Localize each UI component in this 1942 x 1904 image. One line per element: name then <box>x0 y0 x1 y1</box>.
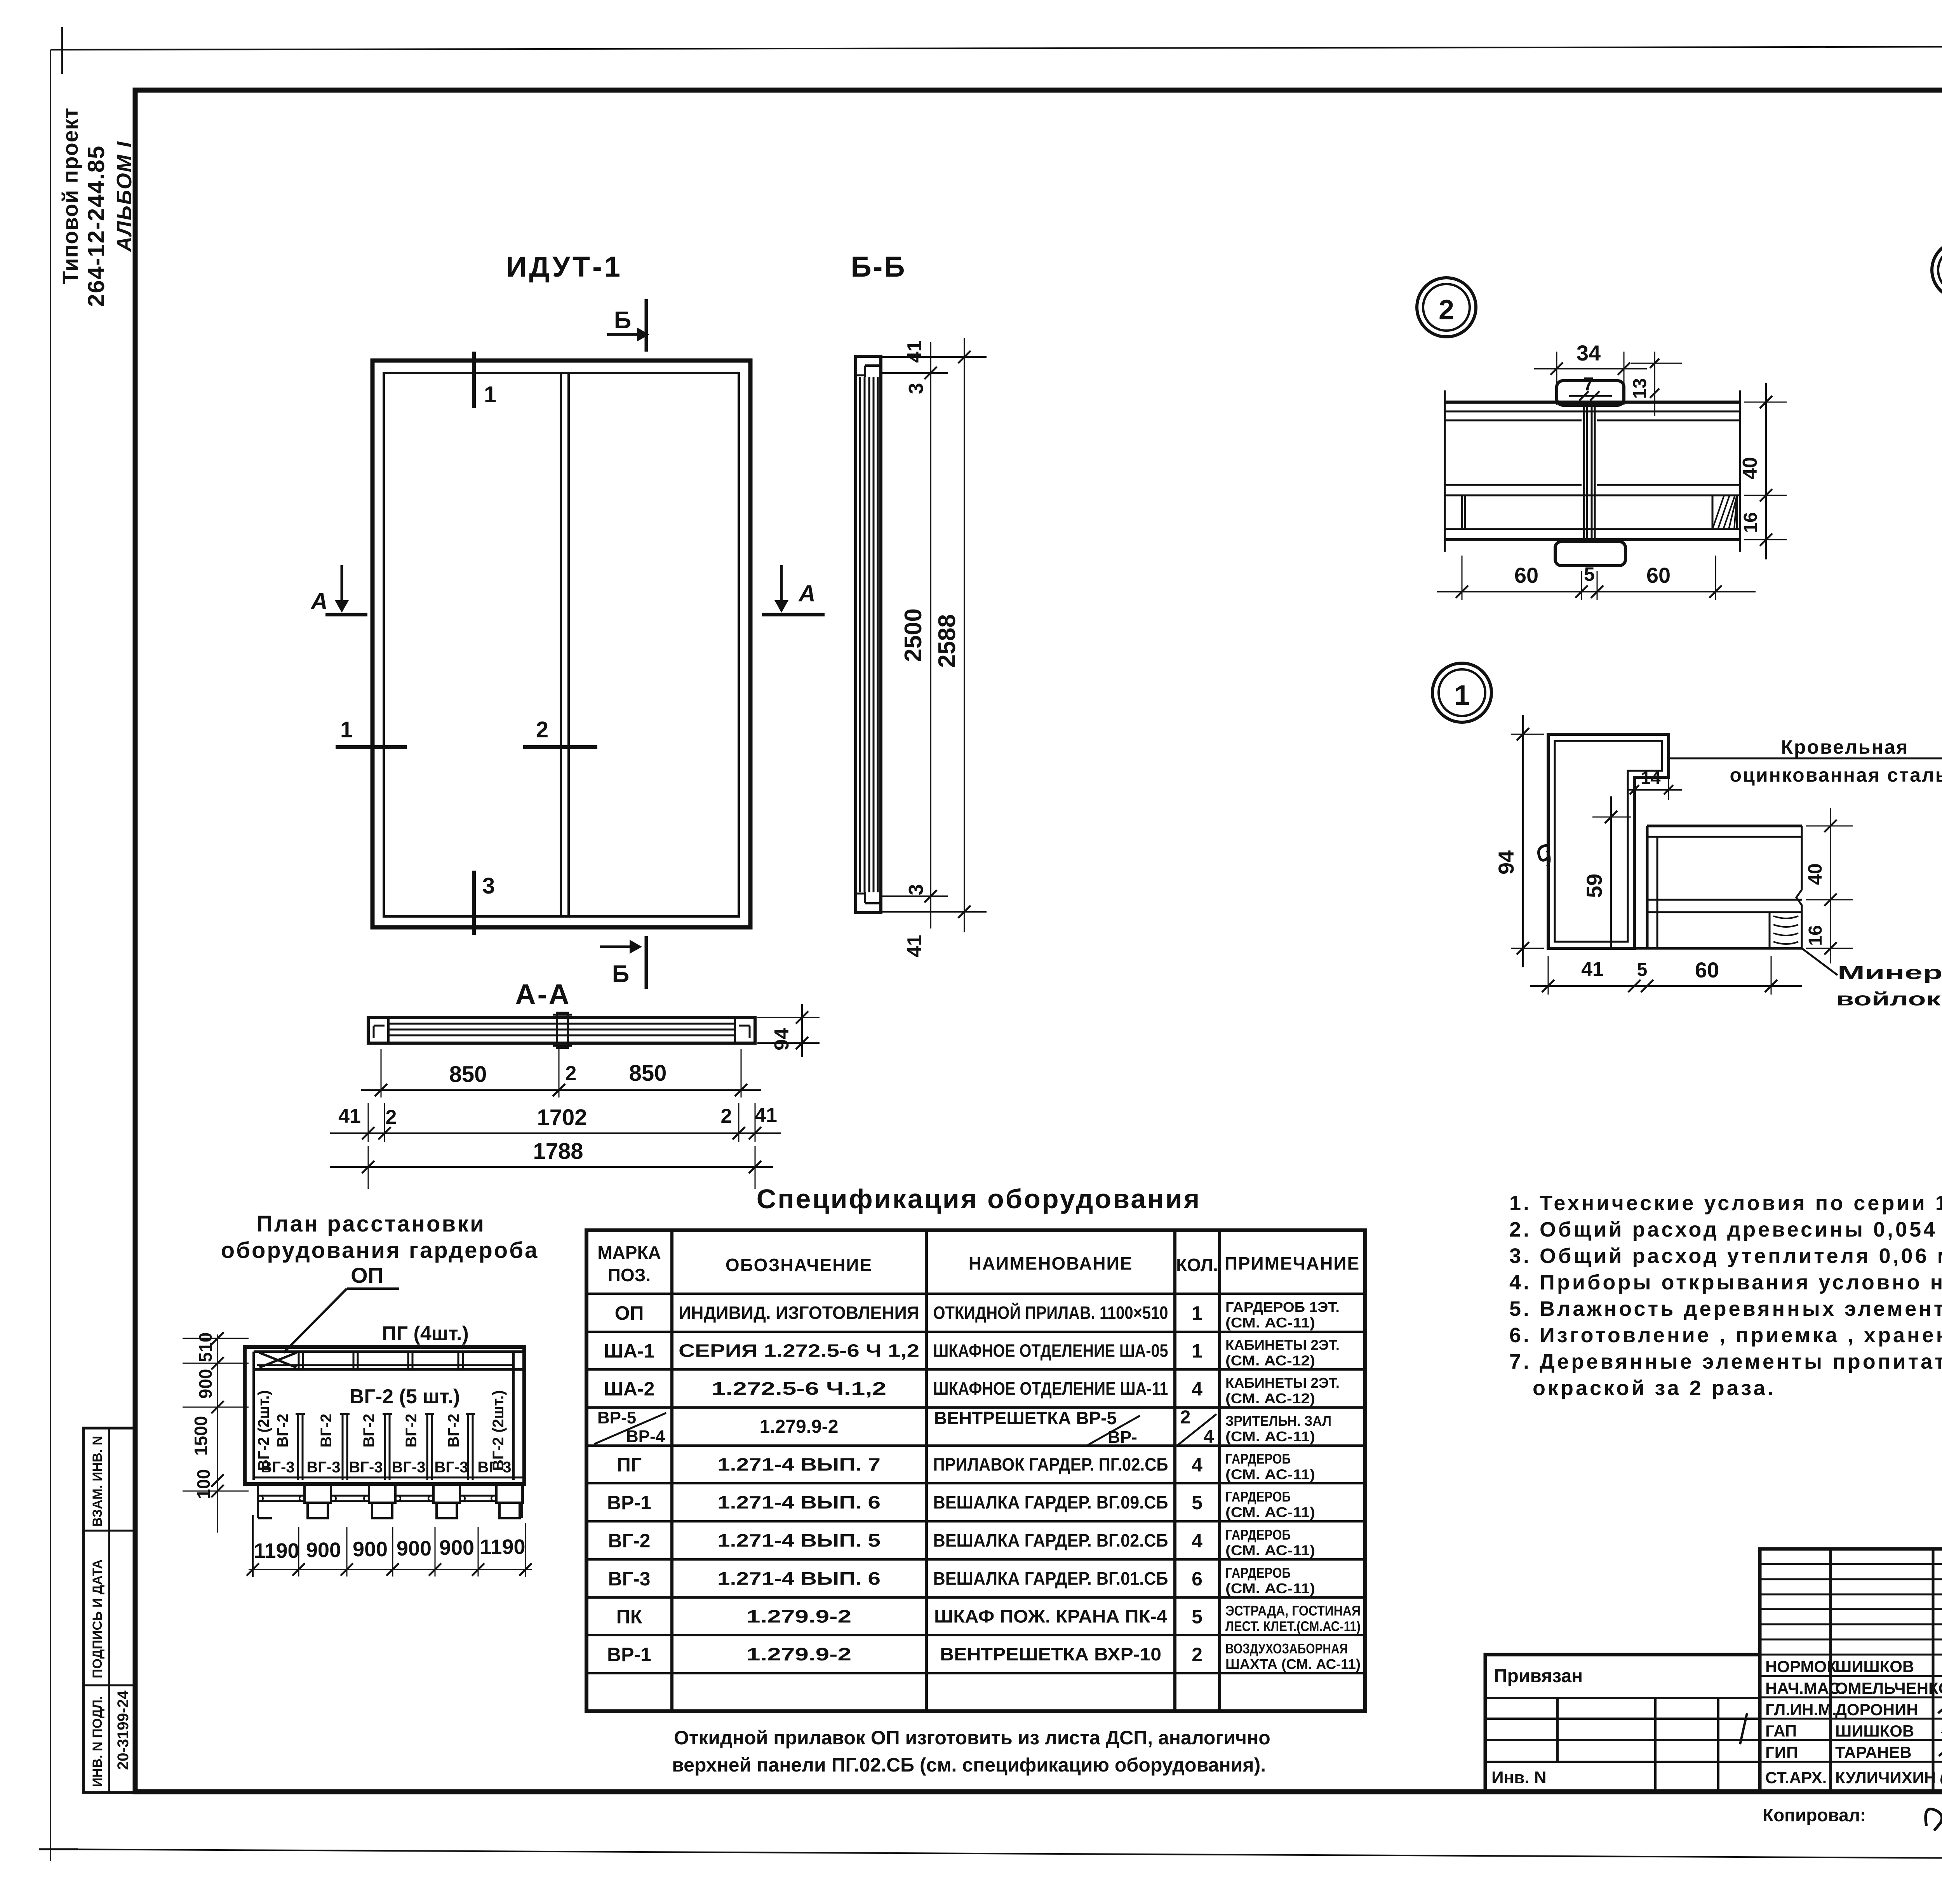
svg-text:1.271-4 ВЫП. 5: 1.271-4 ВЫП. 5 <box>717 1530 881 1550</box>
svg-text:ИДУТ-1: ИДУТ-1 <box>506 251 623 283</box>
svg-text:5. Влажность деревянных эл: 5. Влажность деревянных элементов из хво… <box>1509 1297 1942 1320</box>
svg-text:ВЕНТРЕШЕТКА ВХР-10: ВЕНТРЕШЕТКА ВХР-10 <box>940 1644 1161 1664</box>
svg-text:ВЕНТРЕШЕТКА ВР-5: ВЕНТРЕШЕТКА ВР-5 <box>934 1408 1117 1428</box>
svg-text:НАЧ.МАС.: НАЧ.МАС. <box>1765 1679 1845 1697</box>
detail 2 bottom cover cap <box>1555 542 1625 566</box>
svg-text:оцинкованная сталь: оцинкованная сталь <box>1730 764 1942 786</box>
detail 2 dim 40 right <box>1765 383 1767 559</box>
node tick 3 bottom <box>472 871 476 935</box>
detail 1 dim 94 <box>1522 715 1524 967</box>
svg-text:1: 1 <box>1192 1302 1202 1324</box>
node tick 1 top <box>472 352 476 408</box>
svg-text:41: 41 <box>903 935 926 957</box>
svg-text:ГАРДЕРОБ: ГАРДЕРОБ <box>1225 1527 1291 1543</box>
detail callout circle 3 <box>1932 241 1942 299</box>
section mark А left <box>341 565 343 600</box>
svg-text:ПОЗ.: ПОЗ. <box>608 1265 651 1285</box>
svg-text:3: 3 <box>482 873 495 899</box>
svg-text:КОЛ.: КОЛ. <box>1176 1255 1218 1275</box>
detail 2 top cover cap <box>1557 381 1624 405</box>
detail 2 dim 16 right <box>1760 533 1772 546</box>
svg-text:1. Технические условия по: 1. Технические условия по серии 1.136.5-… <box>1509 1192 1942 1215</box>
detail 2 bottom frame members <box>1461 495 1463 529</box>
svg-text:ДОРОНИН: ДОРОНИН <box>1835 1700 1918 1719</box>
svg-text:2588: 2588 <box>934 614 961 668</box>
svg-text:ОП: ОП <box>615 1302 644 1324</box>
svg-text:Б: Б <box>614 307 632 334</box>
svg-text:ШАХТА (СМ. АС-11): ШАХТА (СМ. АС-11) <box>1225 1656 1361 1672</box>
svg-text:А: А <box>310 588 327 614</box>
svg-text:ВГ-2: ВГ-2 <box>360 1414 378 1448</box>
svg-text:900: 900 <box>397 1537 432 1560</box>
svg-text:ВГ-2: ВГ-2 <box>274 1414 291 1448</box>
svg-text:1: 1 <box>340 717 353 742</box>
svg-text:41: 41 <box>903 340 926 363</box>
svg-text:Привязан: Привязан <box>1494 1666 1583 1686</box>
svg-text:ВЕШАЛКА ГАРДЕР. ВГ.09.СБ: ВЕШАЛКА ГАРДЕР. ВГ.09.СБ <box>933 1492 1168 1512</box>
svg-text:ПГ: ПГ <box>617 1454 642 1476</box>
svg-text:ГАРДЕРОБ: ГАРДЕРОБ <box>1225 1565 1291 1581</box>
svg-text:ВЕШАЛКА ГАРДЕР. ВГ.02.СБ: ВЕШАЛКА ГАРДЕР. ВГ.02.СБ <box>933 1530 1168 1550</box>
Б-Б dim 2588 <box>964 338 965 932</box>
free standing hangers ВГ-2 <box>297 1414 299 1480</box>
svg-text:ША-1: ША-1 <box>604 1340 655 1362</box>
svg-text:А-А: А-А <box>515 978 571 1010</box>
plan left dim chain 510 900 1500 100 <box>217 1334 218 1533</box>
svg-text:5: 5 <box>1637 960 1648 980</box>
svg-text:510: 510 <box>195 1333 216 1362</box>
svg-text:(СМ. АС-12): (СМ. АС-12) <box>1225 1353 1315 1369</box>
door centre meeting stile <box>560 373 562 916</box>
svg-text:2: 2 <box>721 1105 732 1127</box>
А-А dim row 1788 <box>330 1166 773 1168</box>
svg-text:(СМ. АС-11): (СМ. АС-11) <box>1225 1428 1315 1444</box>
svg-text:2: 2 <box>1439 294 1454 326</box>
svg-text:4: 4 <box>1192 1530 1202 1552</box>
svg-text:ВГ-3: ВГ-3 <box>434 1459 468 1476</box>
detail callout circle 1 <box>1432 663 1491 722</box>
svg-text:ПРИЛАВОК ГАРДЕР. ПГ.02.СБ: ПРИЛАВОК ГАРДЕР. ПГ.02.СБ <box>933 1455 1168 1475</box>
svg-text:ША-2: ША-2 <box>604 1378 655 1400</box>
svg-text:4. Приборы открывания усло: 4. Приборы открывания условно не показан… <box>1509 1271 1942 1294</box>
А-А right end cap <box>735 1017 755 1043</box>
svg-text:ЛЕСТ. КЛЕТ.(СМ.АС-11): ЛЕСТ. КЛЕТ.(СМ.АС-11) <box>1225 1618 1361 1634</box>
svg-text:ОМЕЛЬЧЕНКО: ОМЕЛЬЧЕНКО <box>1835 1679 1942 1697</box>
svg-text:ВГ-2: ВГ-2 <box>318 1414 335 1448</box>
svg-text:900: 900 <box>306 1538 341 1562</box>
svg-text:Б: Б <box>612 961 630 988</box>
svg-text:4: 4 <box>1204 1427 1214 1447</box>
Б-Б top rail cap <box>865 364 881 367</box>
svg-text:2: 2 <box>386 1106 397 1129</box>
svg-text:АЛЬБОМ I: АЛЬБОМ I <box>113 141 136 253</box>
svg-text:ТАРАНЕВ: ТАРАНЕВ <box>1835 1743 1912 1761</box>
svg-text:60: 60 <box>1695 958 1719 982</box>
svg-text:ГАРДЕРОБ: ГАРДЕРОБ <box>1225 1489 1291 1505</box>
Б-Б panel layer lines <box>859 377 861 892</box>
svg-text:Копировал:: Копировал: <box>1763 1805 1866 1825</box>
section mark А right <box>780 565 783 600</box>
svg-text:окраской за 2 раза.: окраской за 2 раза. <box>1533 1376 1776 1400</box>
svg-text:Откидной прилавок ОП изгото: Откидной прилавок ОП изготовить из листа… <box>674 1727 1270 1749</box>
label минеральная вата <box>1802 948 1838 975</box>
detail 2 centre joint <box>1583 405 1585 542</box>
svg-text:ВГ-3: ВГ-3 <box>608 1568 651 1590</box>
svg-text:ШКАФ ПОЖ. КРАНА ПК-4: ШКАФ ПОЖ. КРАНА ПК-4 <box>934 1606 1167 1627</box>
svg-text:16: 16 <box>1805 925 1826 946</box>
Б-Б dim 2500 <box>930 342 931 928</box>
svg-text:2: 2 <box>566 1062 577 1085</box>
А-А centre connector <box>557 1013 568 1048</box>
svg-text:ВР-1: ВР-1 <box>607 1644 651 1665</box>
svg-text:ГАРДЕРОБ 1ЭТ.: ГАРДЕРОБ 1ЭТ. <box>1225 1299 1340 1315</box>
detail 1 dim 14 <box>1627 789 1682 791</box>
svg-text:16: 16 <box>1740 512 1761 533</box>
svg-text:оборудования гардероба: оборудования гардероба <box>221 1238 539 1263</box>
svg-text:ОТКИДНОЙ ПРИЛАВ. 1100×510: ОТКИДНОЙ ПРИЛАВ. 1100×510 <box>933 1303 1168 1323</box>
plan counter strip <box>254 1350 524 1353</box>
svg-text:900: 900 <box>353 1538 388 1561</box>
svg-text:41: 41 <box>338 1105 361 1127</box>
node tick 1 left <box>336 745 407 749</box>
svg-text:Спецификация оборудования: Спецификация оборудования <box>757 1184 1201 1214</box>
svg-text:1788: 1788 <box>533 1139 583 1164</box>
Б-Б door edge outline <box>856 356 881 913</box>
svg-text:1: 1 <box>484 382 496 407</box>
svg-text:ПГ (4шт.): ПГ (4шт.) <box>382 1322 469 1345</box>
ОП flap cell X <box>259 1353 296 1367</box>
svg-text:6. Изготовление , приемка , х: 6. Изготовление , приемка , хранение и т… <box>1509 1324 1942 1347</box>
svg-text:94: 94 <box>1494 850 1518 874</box>
svg-text:ВГ-3: ВГ-3 <box>306 1459 340 1476</box>
svg-text:5: 5 <box>1192 1492 1202 1514</box>
svg-text:3. Общий расход утеплителя: 3. Общий расход утеплителя 0,06 м³ <box>1509 1244 1942 1268</box>
plan outer walls <box>245 1347 524 1484</box>
detail 1 door leaf right <box>1647 825 1802 827</box>
svg-text:КАБИНЕТЫ 2ЭТ.: КАБИНЕТЫ 2ЭТ. <box>1225 1337 1340 1353</box>
svg-text:(СМ. АС-12): (СМ. АС-12) <box>1225 1390 1315 1406</box>
svg-text:1.279.9-2: 1.279.9-2 <box>760 1416 839 1437</box>
detail 2 panel joint section <box>1445 401 1740 404</box>
plan bottom posts and rails <box>254 1477 524 1479</box>
svg-text:ИНДИВИД. ИЗГОТОВЛЕНИЯ: ИНДИВИД. ИЗГОТОВЛЕНИЯ <box>679 1303 919 1323</box>
svg-text:ЗРИТЕЛЬН. ЗАЛ: ЗРИТЕЛЬН. ЗАЛ <box>1225 1413 1331 1429</box>
svg-text:4: 4 <box>1192 1378 1202 1400</box>
svg-text:1.271-4 ВЫП. 6: 1.271-4 ВЫП. 6 <box>717 1492 881 1512</box>
svg-text:План расстановки: План расстановки <box>256 1211 486 1237</box>
svg-text:(СМ. АС-11): (СМ. АС-11) <box>1225 1467 1315 1482</box>
svg-text:Типовой проект: Типовой проект <box>58 108 82 284</box>
crop tick top-left <box>61 27 63 74</box>
svg-text:1.271-4 ВЫП. 6: 1.271-4 ВЫП. 6 <box>717 1568 881 1589</box>
detail 2 insulation hatch <box>1712 495 1737 529</box>
svg-text:2: 2 <box>536 717 548 742</box>
crop tick bottom-left <box>39 1848 78 1850</box>
svg-text:(СМ. АС-11): (СМ. АС-11) <box>1225 1542 1315 1558</box>
svg-text:ПОДПИСЬ И ДАТА: ПОДПИСЬ И ДАТА <box>90 1559 105 1678</box>
detail 2 dim 13 <box>1654 352 1655 416</box>
svg-text:59: 59 <box>1582 874 1606 898</box>
svg-text:3: 3 <box>905 884 927 895</box>
svg-text:ВГ-2 (5 шт.): ВГ-2 (5 шт.) <box>350 1385 460 1408</box>
svg-text:ВГ-2: ВГ-2 <box>608 1530 651 1552</box>
svg-text:40: 40 <box>1739 457 1761 479</box>
svg-text:13: 13 <box>1630 378 1650 399</box>
svg-text:ГЛ.ИН.М.: ГЛ.ИН.М. <box>1765 1700 1836 1719</box>
svg-text:ШКАФНОЕ ОТДЕЛЕНИЕ ША-05: ШКАФНОЕ ОТДЕЛЕНИЕ ША-05 <box>933 1341 1168 1361</box>
А-А dim row 41 2 1702 2 41 <box>330 1132 781 1134</box>
section mark Б bottom <box>645 936 648 989</box>
svg-text:1: 1 <box>1454 680 1470 711</box>
svg-text:Кровельная: Кровельная <box>1781 736 1909 758</box>
svg-text:7: 7 <box>1584 374 1594 395</box>
svg-text:264-12-244.85: 264-12-244.85 <box>83 145 109 307</box>
svg-text:ГИП: ГИП <box>1765 1743 1798 1761</box>
svg-text:5: 5 <box>1192 1606 1202 1628</box>
svg-text:2: 2 <box>1180 1407 1191 1428</box>
svg-text:2: 2 <box>1192 1644 1202 1665</box>
svg-text:ВГ-3: ВГ-3 <box>261 1459 294 1476</box>
svg-text:41: 41 <box>755 1104 777 1127</box>
svg-text:А: А <box>798 580 815 606</box>
svg-text:60: 60 <box>1646 563 1671 587</box>
Б-Б bottom rail cap <box>865 902 881 904</box>
detail 1 dim 16 right <box>1824 942 1837 955</box>
svg-text:ВОЗДУХОЗАБОРНАЯ: ВОЗДУХОЗАБОРНАЯ <box>1225 1641 1348 1657</box>
svg-text:ПРИМЕЧАНИЕ: ПРИМЕЧАНИЕ <box>1225 1253 1360 1273</box>
svg-text:ОП: ОП <box>351 1263 383 1287</box>
svg-text:7. Деревянные элементы про: 7. Деревянные элементы пропитать антипир… <box>1509 1350 1942 1373</box>
svg-text:ВЗАМ. ИНВ. N: ВЗАМ. ИНВ. N <box>90 1436 105 1527</box>
door leaf inner frame <box>384 373 739 916</box>
svg-text:(СМ. АС-11): (СМ. АС-11) <box>1225 1315 1315 1331</box>
svg-text:войлок, смоченный в глиняном: войлок, смоченный в глиняном растворе <box>1836 989 1942 1010</box>
node tick 2 centre <box>523 745 597 749</box>
svg-text:1.279.9-2: 1.279.9-2 <box>747 1644 851 1664</box>
svg-text:3: 3 <box>905 383 927 394</box>
detail 2 dim 7 <box>1569 395 1612 397</box>
svg-text:ШИШКОВ: ШИШКОВ <box>1835 1722 1914 1740</box>
plan bottom dim chain <box>252 1515 254 1577</box>
detail 1 dim 40 right <box>1830 808 1831 963</box>
svg-text:Инв. N: Инв. N <box>1491 1768 1546 1787</box>
svg-text:1.272.5-6 Ч.1,2: 1.272.5-6 Ч.1,2 <box>712 1378 886 1399</box>
left stamp boxes <box>84 1428 135 1793</box>
svg-text:ГАП: ГАП <box>1765 1722 1797 1740</box>
svg-text:ОБОЗНАЧЕНИЕ: ОБОЗНАЧЕНИЕ <box>726 1255 872 1275</box>
svg-text:60: 60 <box>1514 563 1538 587</box>
svg-text:ВГ-3: ВГ-3 <box>477 1459 511 1476</box>
svg-text:ВГ-3: ВГ-3 <box>392 1459 425 1476</box>
detail 1 insulation hatch <box>1769 912 1771 948</box>
Б-Б extension lines <box>881 356 987 358</box>
title block: staff column grid <box>1760 1549 1942 1792</box>
svg-text:900: 900 <box>439 1536 474 1559</box>
svg-text:ШИШКОВ: ШИШКОВ <box>1835 1657 1914 1676</box>
svg-text:ЭСТРАДА, ГОСТИНАЯ: ЭСТРАДА, ГОСТИНАЯ <box>1225 1603 1361 1619</box>
detail 1 dim 59 <box>1610 796 1612 948</box>
svg-text:ВГ-2: ВГ-2 <box>403 1414 420 1448</box>
door leaf outer frame <box>372 361 750 927</box>
svg-text:ПК: ПК <box>616 1606 642 1628</box>
svg-text:100: 100 <box>193 1469 214 1499</box>
svg-text:СЕРИЯ 1.272.5-6 Ч 1,2: СЕРИЯ 1.272.5-6 Ч 1,2 <box>679 1341 919 1361</box>
svg-text:1190: 1190 <box>480 1535 525 1559</box>
svg-text:2500: 2500 <box>900 608 927 662</box>
svg-text:1702: 1702 <box>537 1105 587 1130</box>
svg-text:1190: 1190 <box>254 1539 299 1563</box>
detail 2 dim 34 <box>1556 352 1557 405</box>
svg-text:(СМ. АС-11): (СМ. АС-11) <box>1225 1504 1315 1520</box>
svg-text:КАБИНЕТЫ 2ЭТ.: КАБИНЕТЫ 2ЭТ. <box>1225 1375 1340 1391</box>
svg-text:1500: 1500 <box>191 1416 211 1456</box>
svg-text:ВР-5: ВР-5 <box>597 1408 636 1427</box>
svg-text:верхней панели ПГ.02.СБ (см: верхней панели ПГ.02.СБ (см. спецификаци… <box>672 1754 1266 1776</box>
svg-text:Б-Б: Б-Б <box>851 251 906 283</box>
svg-text:1: 1 <box>1192 1340 1202 1362</box>
svg-text:ВР-4: ВР-4 <box>626 1427 665 1446</box>
svg-text:Минеральная вата или строит: Минеральная вата или строительный <box>1838 963 1942 983</box>
svg-text:4: 4 <box>1192 1454 1202 1476</box>
svg-text:СТ.АРХ.: СТ.АРХ. <box>1765 1768 1827 1787</box>
svg-text:850: 850 <box>449 1062 487 1087</box>
svg-text:850: 850 <box>629 1061 667 1086</box>
svg-text:НОРМОК.: НОРМОК. <box>1765 1657 1841 1676</box>
detail 1 bottom dims 41 5 60 <box>1530 985 1802 987</box>
svg-text:2. Общий расход древесины 0: 2. Общий расход древесины 0,054 м³ опред… <box>1509 1218 1942 1241</box>
svg-text:(СМ. АС-11): (СМ. АС-11) <box>1225 1580 1315 1596</box>
svg-text:ВР-1: ВР-1 <box>607 1492 651 1514</box>
А-А dim row 850 2 850 <box>361 1089 761 1091</box>
svg-text:НАИМЕНОВАНИЕ: НАИМЕНОВАНИЕ <box>969 1253 1133 1273</box>
svg-text:ИНВ. N ПОДЛ.: ИНВ. N ПОДЛ. <box>90 1696 105 1787</box>
А-А dim 94 <box>801 1004 803 1057</box>
svg-text:ВГ-2: ВГ-2 <box>445 1414 462 1448</box>
svg-text:20-3199-24: 20-3199-24 <box>115 1690 132 1770</box>
svg-text:ВГ-3: ВГ-3 <box>349 1459 383 1476</box>
detail 2 bottom dims 60 5 60 <box>1437 591 1756 592</box>
svg-text:МАРКА: МАРКА <box>597 1242 661 1263</box>
svg-text:5: 5 <box>1584 563 1595 585</box>
svg-text:1.271-4 ВЫП. 7: 1.271-4 ВЫП. 7 <box>717 1455 881 1475</box>
А-А door plan outline <box>368 1017 755 1043</box>
svg-text:94: 94 <box>771 1028 793 1050</box>
detail callout circle 2 <box>1417 278 1476 337</box>
counter cell dividers <box>298 1352 300 1369</box>
detail 1 seam hook <box>1538 845 1549 866</box>
sheet outer trim line <box>50 46 1942 50</box>
svg-text:900: 900 <box>195 1369 216 1399</box>
svg-text:ВЕШАЛКА ГАРДЕР. ВГ.01.СБ: ВЕШАЛКА ГАРДЕР. ВГ.01.СБ <box>933 1568 1168 1589</box>
svg-text:40: 40 <box>1804 863 1826 885</box>
svg-text:КУЛИЧИХИН: КУЛИЧИХИН <box>1835 1768 1936 1787</box>
А-А panel layer lines <box>388 1023 735 1025</box>
svg-text:6: 6 <box>1192 1568 1202 1590</box>
svg-text:14: 14 <box>1641 768 1661 788</box>
title block: left attachment part <box>1485 1655 1760 1792</box>
svg-text:34: 34 <box>1577 341 1601 365</box>
svg-text:ГАРДЕРОБ: ГАРДЕРОБ <box>1225 1451 1291 1467</box>
svg-text:41: 41 <box>1581 958 1604 981</box>
svg-text:ШКАФНОЕ ОТДЕЛЕНИЕ ША-11: ШКАФНОЕ ОТДЕЛЕНИЕ ША-11 <box>933 1378 1168 1399</box>
detail 1 jamb profile <box>1548 734 1669 948</box>
specification table grid <box>586 1230 1365 1711</box>
А-А left end cap <box>368 1017 388 1043</box>
section mark Б top <box>645 299 648 352</box>
svg-text:1.279.9-2: 1.279.9-2 <box>747 1606 851 1627</box>
